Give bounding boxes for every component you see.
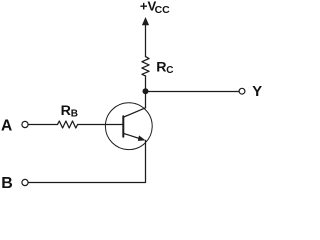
label Y [252, 84, 262, 100]
terminal B (open circle) [22, 179, 28, 185]
svg-text:B: B [71, 109, 78, 120]
terminal A (open circle) [22, 121, 28, 127]
wire (VCC arrow to RC) [145, 24, 147, 57]
transistor Q1 body circle [105, 103, 152, 150]
label A [1, 117, 12, 134]
transistor Q1 collector lead [124, 108, 146, 117]
wire (node to Y terminal) [146, 91, 239, 93]
svg-text:C: C [166, 65, 173, 76]
node +VCC label [140, 0, 170, 16]
transistor Q1 emitter lead with arrow [124, 134, 143, 140]
resistor RB [58, 121, 78, 128]
wire (RB to base) [78, 124, 124, 126]
svg-text:CC: CC [155, 4, 171, 16]
transistor Q1 base bar [122, 116, 124, 137]
wire (B to emitter) [28, 140, 145, 182]
label B [1, 175, 13, 192]
svg-text:A: A [1, 117, 12, 134]
svg-text:Y: Y [252, 84, 262, 100]
svg-text:R: R [156, 59, 166, 75]
terminal Y (open circle) [239, 88, 245, 94]
node junction dot [143, 88, 149, 94]
svg-text:B: B [1, 175, 13, 191]
wire (RC to node) [145, 76, 147, 92]
wire (A to RB) [28, 124, 57, 126]
resistor RC [142, 57, 149, 76]
label RC [156, 59, 173, 76]
wire (node to collector) [145, 92, 147, 108]
label RB [61, 103, 78, 120]
svg-text:R: R [61, 103, 71, 119]
power arrow to +VCC [142, 17, 149, 25]
